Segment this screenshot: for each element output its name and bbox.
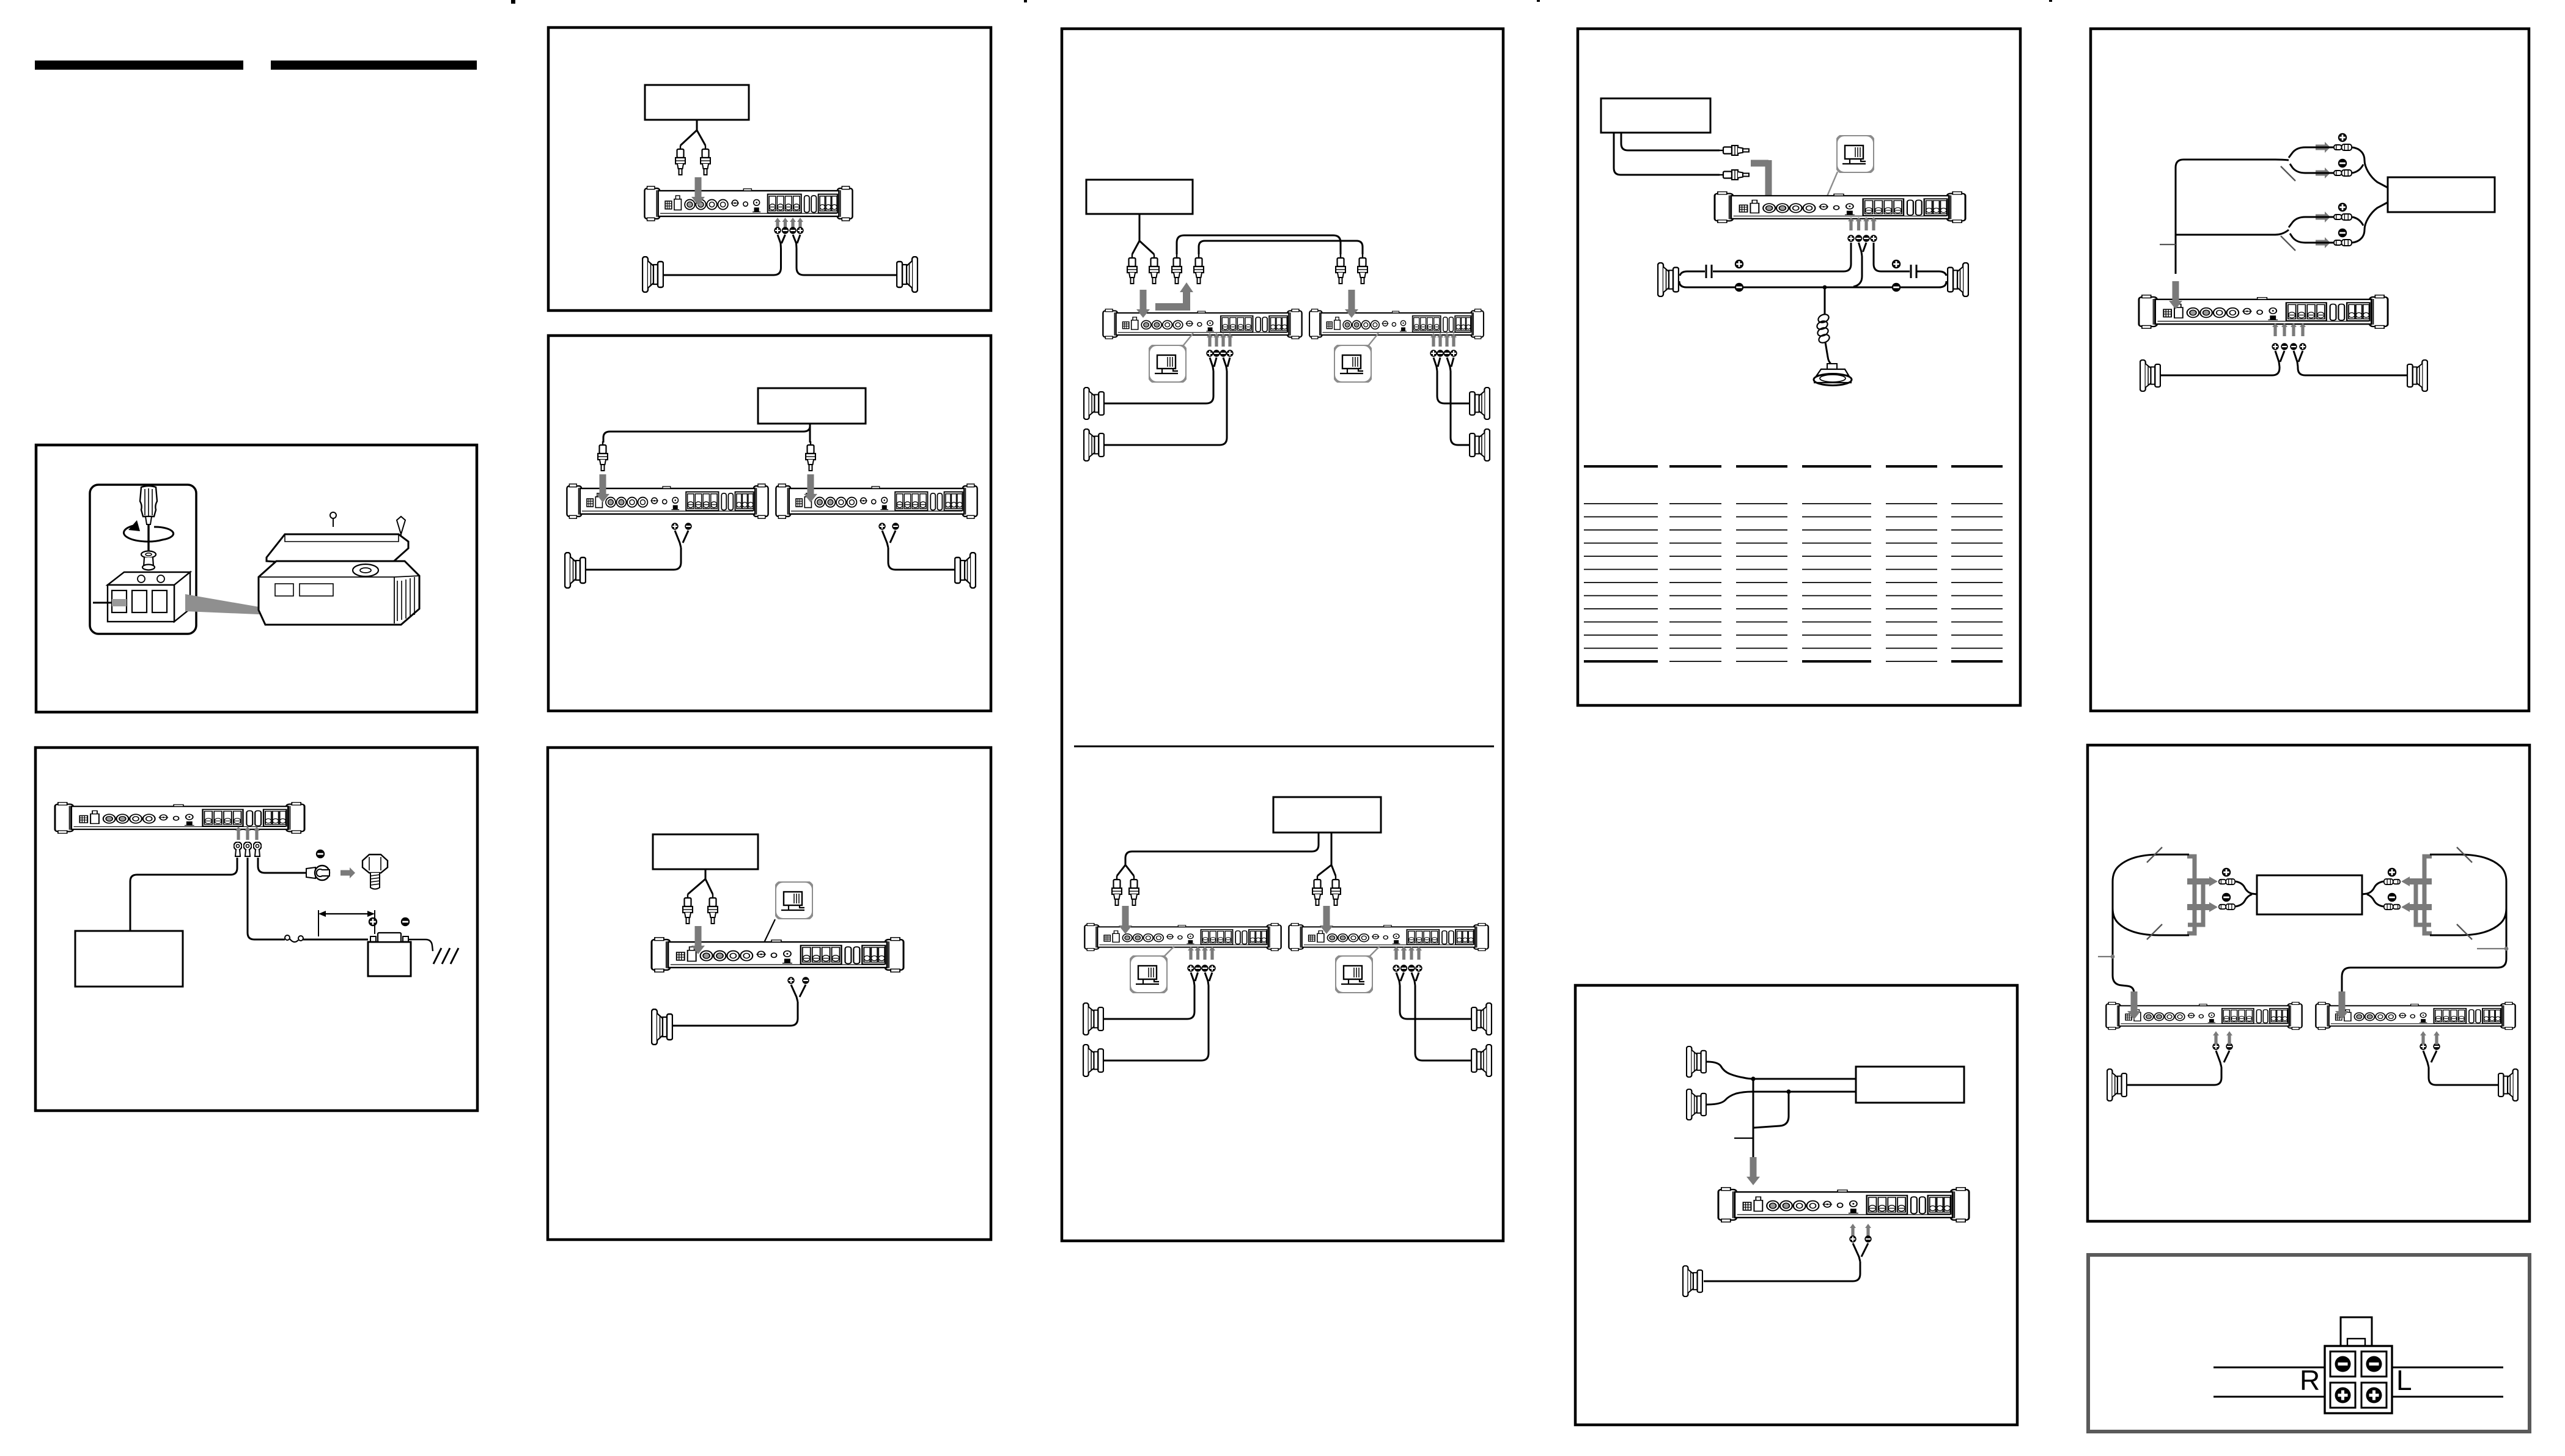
svg-text:L: L bbox=[2396, 1364, 2412, 1396]
svg-text:R: R bbox=[2300, 1364, 2320, 1396]
